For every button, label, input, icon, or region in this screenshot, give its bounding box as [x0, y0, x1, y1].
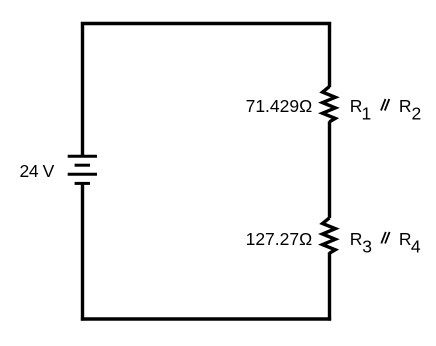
wire: between R1//R2 and R3//R4	[328, 121, 331, 218]
battery short plate (bottom, negative)	[75, 182, 90, 185]
svg-text:127.27Ω: 127.27Ω	[246, 229, 313, 249]
svg-text:R: R	[399, 96, 412, 116]
wire: right side down to bottom-right corner	[328, 252, 331, 320]
svg-text:2: 2	[412, 104, 422, 124]
svg-text:4: 4	[411, 236, 421, 256]
resistor R1 // R2 zigzag	[323, 86, 336, 121]
wire: top horizontal run	[81, 22, 331, 25]
parallel marks between R1 and R2	[381, 99, 386, 111]
battery short plate (upper)	[75, 164, 90, 167]
wire: battery positive terminal up the left side	[81, 22, 84, 157]
battery long plate (top, positive)	[68, 155, 97, 158]
wire: bottom horizontal run	[81, 317, 331, 320]
svg-text:1: 1	[362, 104, 372, 124]
svg-text:3: 3	[362, 236, 372, 256]
svg-text:R: R	[399, 229, 412, 249]
parallel marks between R3 and R4	[381, 232, 386, 244]
svg-text:24 V: 24 V	[20, 161, 55, 181]
svg-text:R: R	[350, 229, 363, 249]
svg-text:71.429Ω: 71.429Ω	[246, 96, 313, 116]
battery long plate (lower)	[68, 173, 97, 176]
wire: battery negative terminal down the left side	[81, 184, 84, 321]
resistor R3 // R4 zigzag	[323, 218, 336, 253]
wire: right side down to R1//R2	[328, 22, 331, 87]
